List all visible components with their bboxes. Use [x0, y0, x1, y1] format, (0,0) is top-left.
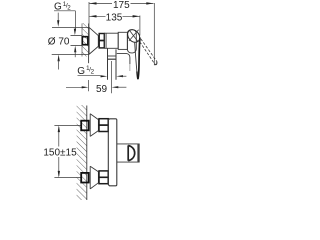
- dimension diameter 70: [48, 13, 89, 70]
- lever knob cross lines: [129, 30, 139, 42]
- mixer body bottom view: [108, 119, 117, 186]
- union nut upper, bottom view: [99, 119, 108, 132]
- dimension 59: [66, 80, 126, 95]
- handle cap top view: [127, 30, 136, 53]
- body section 1 top view: [105, 33, 118, 48]
- dimension 150 plus-minus 15: [43, 125, 81, 177]
- wall surface line bottom view: [86, 106, 88, 201]
- shower outlet pipe top view: [108, 48, 117, 79]
- wall hatching bottom view: [77, 105, 87, 200]
- label G 1/2 top: [54, 1, 76, 57]
- lever phantom tip: [155, 61, 157, 64]
- supply pipe stub top view: [71, 35, 82, 37]
- wall fitting socket upper, bottom view: [81, 121, 89, 131]
- escutcheon cone lower, bottom view: [90, 166, 98, 189]
- dimension 135: [89, 13, 140, 36]
- outlet centre line: [110, 61, 112, 93]
- lever handle top view: [125, 27, 142, 44]
- escutcheon cone top view: [89, 27, 98, 54]
- wall back line top view: [81, 24, 83, 57]
- dimension 175: [89, 0, 154, 65]
- body section 2 top view: [118, 32, 127, 49]
- escutcheon cone upper, bottom view: [90, 114, 98, 137]
- svg-text:59: 59: [96, 84, 108, 95]
- svg-text:150±15: 150±15: [43, 148, 77, 159]
- wall fitting socket top view: [82, 37, 88, 45]
- handle end-on bottom view: [117, 144, 139, 162]
- svg-text:175: 175: [113, 0, 130, 11]
- wall hatching top view: [82, 23, 89, 57]
- wall fitting socket lower, bottom view: [81, 173, 89, 183]
- union nut top view: [99, 34, 104, 48]
- union nut lower, bottom view: [99, 171, 108, 184]
- lever shaft: [135, 42, 137, 72]
- svg-text:Ø 70: Ø 70: [48, 36, 70, 47]
- svg-text:135: 135: [106, 13, 123, 24]
- label G 1/2 outlet: [77, 65, 126, 77]
- wall surface line top view: [88, 24, 90, 64]
- lower housing below body: [117, 54, 130, 64]
- lever phantom position dashed: [140, 39, 157, 64]
